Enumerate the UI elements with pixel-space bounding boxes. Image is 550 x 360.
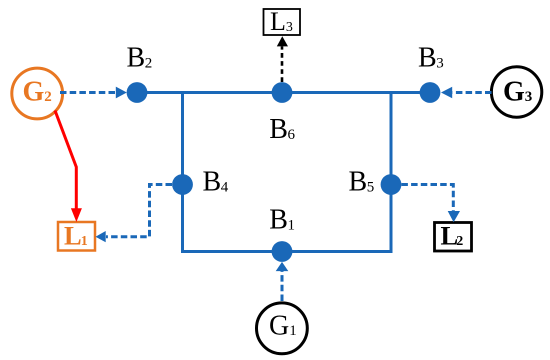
- svg-text:L2: L2: [441, 221, 464, 251]
- svg-text:L3: L3: [270, 7, 293, 36]
- wire: top bus line B2-B6-B3: [137, 91, 430, 94]
- wire: right vertical branch through B5: [390, 93, 393, 252]
- node B4: [172, 174, 193, 195]
- svg-text:B6: B6: [269, 114, 295, 145]
- wire: left vertical branch through B4: [181, 93, 184, 252]
- wire: dashed arrow B4 to L1: [106, 185, 172, 237]
- wire: bottom bus line through B1: [181, 250, 393, 253]
- node B1: [272, 241, 293, 262]
- svg-text:G3: G3: [503, 77, 532, 108]
- svg-text:G2: G2: [23, 77, 52, 108]
- wire: dashed arrow G2 to B2: [60, 91, 116, 94]
- node B2: [127, 82, 148, 103]
- node B6: [272, 82, 293, 103]
- generator G3: [491, 67, 541, 117]
- wire: black dashed arrow B6 to L3: [281, 46, 284, 82]
- svg-text:B4: B4: [203, 167, 229, 198]
- wire: dashed arrow G3 to B3: [453, 91, 492, 94]
- svg-text:B5: B5: [349, 167, 375, 198]
- wire: dashed arrow G1 to B1: [281, 271, 284, 301]
- svg-text:B2: B2: [127, 43, 153, 74]
- wire: red arrow G2 to L1: [55, 111, 76, 209]
- node B3: [420, 82, 441, 103]
- generator G2: [12, 68, 63, 119]
- svg-text:B1: B1: [269, 204, 295, 235]
- load L3: [264, 9, 301, 35]
- generator G1: [257, 303, 308, 354]
- node B5: [381, 174, 402, 195]
- svg-text:L1: L1: [64, 221, 88, 251]
- load L1: [58, 222, 95, 251]
- svg-text:G1: G1: [269, 310, 297, 341]
- svg-text:B3: B3: [418, 43, 444, 74]
- wire: dashed arrow B5 to L2: [401, 185, 453, 212]
- load L2: [435, 223, 472, 252]
